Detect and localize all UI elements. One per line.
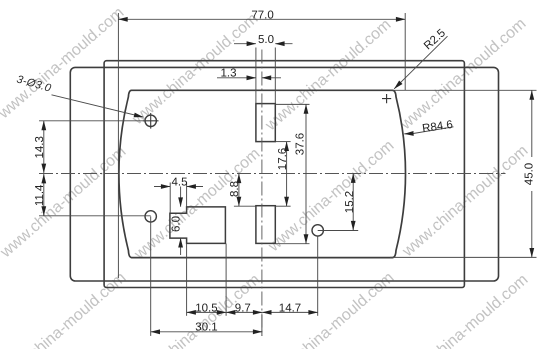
svg-text:4.5: 4.5 [172, 176, 188, 188]
svg-text:www.china-mould.com: www.china-mould.com [0, 4, 127, 122]
dimension 8.8 [234, 174, 256, 206]
vertical centerline [261, 50, 263, 337]
dimension 14.3 [39, 121, 145, 173]
svg-text:9.7: 9.7 [235, 302, 251, 314]
label R84.6 with leader [404, 127, 453, 134]
svg-text:10.5: 10.5 [195, 302, 217, 314]
svg-text:R84.6: R84.6 [422, 119, 454, 135]
stepped cutout [170, 207, 226, 244]
dimension 4.5 [154, 183, 203, 214]
dimension 9.7 [226, 311, 262, 313]
middle plate rectangle [104, 61, 464, 288]
horizontal centerline [39, 173, 506, 175]
dimension 11.4 [39, 174, 151, 216]
svg-text:14.7: 14.7 [279, 302, 301, 314]
hole 3 [312, 225, 323, 236]
label R2.5 with leader [394, 36, 447, 89]
svg-text:30.1: 30.1 [195, 322, 217, 334]
bottom slot cutout [256, 206, 275, 244]
dimension 17.6 [276, 142, 291, 207]
cover plate outline with curved sides R84.6 [119, 90, 406, 257]
dimension 14.7 [262, 236, 318, 316]
outer base plate rectangle [70, 67, 498, 281]
hole 1 with crosshair [143, 113, 159, 129]
svg-text:8.8: 8.8 [229, 181, 241, 197]
dimension 45.0 [390, 90, 537, 257]
dimension 30.1 [151, 216, 263, 336]
svg-text:www.china-mould.com: www.china-mould.com [129, 10, 262, 128]
svg-text:www.china-mould.com: www.china-mould.com [262, 16, 395, 134]
svg-text:www.china-mould.com: www.china-mould.com [0, 143, 129, 261]
dimension 5.0 [234, 44, 293, 104]
svg-text:77.0: 77.0 [251, 9, 273, 21]
corner center mark [382, 94, 391, 103]
svg-text:11.4: 11.4 [34, 184, 46, 206]
svg-text:6.0: 6.0 [171, 216, 183, 232]
dimension 77.0 [118, 13, 405, 278]
svg-text:37.6: 37.6 [295, 133, 307, 155]
svg-text:17.6: 17.6 [277, 148, 289, 170]
label 3-dia3.0 with leader [52, 95, 144, 117]
dimension 15.2 [318, 174, 359, 231]
svg-text:5.0: 5.0 [258, 34, 274, 46]
dimension 1.3 [217, 77, 281, 79]
dimension 10.5 [187, 244, 227, 316]
svg-text:15.2: 15.2 [344, 191, 356, 213]
dimension 6.0 [180, 187, 182, 256]
hole 2 [145, 211, 156, 222]
svg-text:14.3: 14.3 [34, 136, 46, 158]
svg-text:www.china-mould.com: www.china-mould.com [397, 15, 530, 133]
svg-text:1.3: 1.3 [221, 68, 237, 80]
dimension 37.6 [276, 104, 310, 243]
svg-text:45.0: 45.0 [524, 163, 536, 185]
top slot cutout 5.0 wide [256, 104, 275, 142]
